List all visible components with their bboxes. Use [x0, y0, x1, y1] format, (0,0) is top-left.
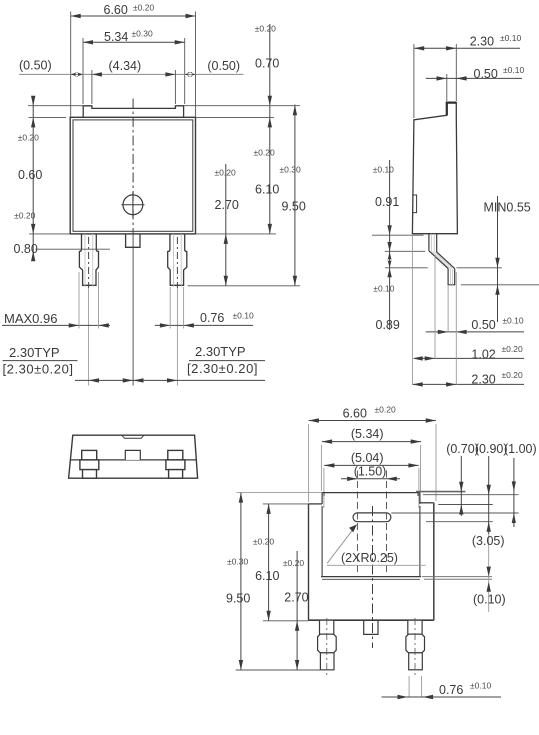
svg-text:0.80: 0.80 — [14, 242, 38, 256]
side view lead bend outer — [429, 251, 448, 269]
bottom view right lead — [408, 620, 422, 634]
9.50 dimension vertical line — [294, 105, 296, 286]
side view body outline — [412, 103, 457, 234]
front view right lead — [168, 234, 187, 285]
6.10 ext lines — [263, 503, 309, 505]
bottom view 9.50 dim vertical — [240, 493, 242, 670]
svg-text:±0.30: ±0.30 — [132, 29, 153, 39]
small view left lead shoulder block — [80, 460, 99, 470]
MAX0.96 ext lines — [78, 272, 80, 329]
(2XR0.25) leader line — [327, 525, 357, 564]
tab top ext line to right (0.70 reference) — [416, 491, 465, 493]
bottom view body right edge — [433, 503, 435, 620]
svg-text:1.02: 1.02 — [471, 348, 495, 362]
svg-text:9.50: 9.50 — [226, 592, 250, 606]
svg-text:0.50: 0.50 — [471, 318, 495, 332]
right lead center line extension — [176, 288, 178, 386]
svg-text:±0.10: ±0.10 — [373, 165, 394, 175]
svg-text:±0.10: ±0.10 — [470, 681, 491, 691]
left lead center line extension — [88, 288, 90, 386]
dim 0.89 ext lines — [372, 234, 424, 236]
dim 0.76 bottom line — [382, 696, 502, 698]
dim 1.02 line — [415, 357, 524, 359]
side view lead bend middle lines — [432, 251, 451, 268]
SMALL VIEW GROUP — [69, 435, 198, 478]
svg-text:±0.20: ±0.20 — [502, 370, 523, 380]
svg-text:5.34: 5.34 — [104, 30, 128, 44]
svg-text:0.89: 0.89 — [376, 318, 400, 332]
small view right lead top block — [168, 450, 183, 460]
front view left lead — [79, 234, 98, 285]
side view lead lower section — [448, 269, 455, 285]
tab top ext line to left (9.50 reference) — [237, 492, 323, 494]
bottom view 6.60 ext lines — [308, 424, 310, 502]
slot center ext line right ((1.00)/(0.90) reference) — [391, 512, 518, 514]
dim 0.50 top ext line — [446, 74, 448, 101]
svg-text:[2.30±0.20]: [2.30±0.20] — [187, 361, 258, 376]
dim 0.50 top line — [426, 77, 522, 79]
bottom view dim 6.60 line — [309, 420, 436, 422]
side view lead lower inner lines — [450, 269, 452, 285]
svg-text:±0.10: ±0.10 — [503, 65, 524, 75]
dim 2.30 bottom line — [412, 383, 524, 385]
bottom view slot (stadium) — [353, 513, 391, 522]
front view center line extension to bottom dims — [132, 234, 134, 386]
bottom view dim (5.04) line — [324, 464, 419, 466]
svg-text:6.60: 6.60 — [104, 3, 128, 17]
front view center line (dash-dot) — [132, 99, 134, 234]
target symbol cross horizontal — [121, 204, 144, 206]
lead tip ext line bottom left — [236, 669, 335, 671]
0.80 arrows — [31, 224, 35, 261]
bottom view dim (5.34) line — [322, 441, 421, 443]
svg-text:2.30TYP: 2.30TYP — [195, 344, 246, 359]
svg-text:±0.10: ±0.10 — [233, 311, 254, 321]
2.70 dimension vertical line — [225, 164, 227, 286]
svg-text:±0.20: ±0.20 — [502, 344, 523, 354]
bottom view body bottom edge — [309, 619, 434, 621]
svg-text:6.60: 6.60 — [343, 407, 367, 421]
(0.70) dim vertical — [460, 456, 462, 516]
small view right lead bottom block — [169, 470, 183, 479]
side view lead bend inner — [437, 252, 455, 269]
bottom view dim (1.50) line — [341, 478, 400, 480]
svg-text:2.70: 2.70 — [215, 198, 239, 212]
0.70 arrows — [268, 96, 272, 128]
bottom view (5.34) ext lines — [320, 445, 322, 491]
right 0.70/6.10 dimension vertical line — [269, 24, 271, 234]
bottom view tab side edges above body — [321, 493, 323, 504]
SIDE VIEW GROUP — [372, 33, 539, 387]
body top ext line right (0.90 reference) — [438, 504, 493, 506]
svg-text:9.50: 9.50 — [282, 200, 306, 214]
svg-text:(0.10): (0.10) — [473, 593, 506, 607]
svg-text:(4.34): (4.34) — [109, 59, 142, 73]
svg-text:0.91: 0.91 — [375, 195, 399, 209]
side view tab thick edges — [447, 103, 457, 116]
pad bottom ext lines right ((0.10)/(3.05) reference) — [422, 576, 492, 578]
svg-text:(0.50): (0.50) — [19, 59, 52, 73]
front view center stub lead — [126, 234, 140, 247]
dim 6.60 line — [71, 15, 196, 17]
side view gate bump on left edge — [412, 195, 416, 213]
bottom view center stub lead — [364, 620, 378, 634]
svg-text:(5.04): (5.04) — [351, 451, 384, 465]
front view body outline outer — [70, 117, 195, 234]
svg-text:(0.50): (0.50) — [207, 59, 240, 73]
svg-text:(5.34): (5.34) — [351, 427, 384, 441]
right horizontal ext lines — [184, 105, 300, 107]
dim 6.60 ext lines — [70, 12, 72, 117]
svg-text:(0.90): (0.90) — [475, 442, 508, 456]
svg-text:MIN0.55: MIN0.55 — [484, 201, 531, 215]
(0.50) left arrows — [71, 72, 83, 77]
svg-text:6.10: 6.10 — [255, 569, 279, 583]
tab top end hooks — [323, 493, 325, 496]
side view bottom ext verticals — [411, 236, 413, 384]
svg-text:[2.30±0.20]: [2.30±0.20] — [3, 362, 74, 377]
svg-text:±0.20: ±0.20 — [14, 210, 35, 220]
svg-text:±0.20: ±0.20 — [255, 24, 276, 34]
dim 2.30 top line — [414, 47, 520, 49]
left horizontal ext lines — [28, 105, 83, 107]
lead tip ext line — [461, 284, 539, 286]
bottom view tab top edge — [322, 492, 420, 494]
dim 0.91 vertical line — [389, 160, 391, 225]
(0.50) right arrows — [185, 72, 196, 77]
dim 5.34 ext lines — [82, 38, 84, 104]
svg-text:0.76: 0.76 — [439, 683, 463, 697]
svg-text:MAX0.96: MAX0.96 — [4, 311, 57, 326]
svg-text:±0.20: ±0.20 — [18, 133, 39, 143]
bottom view pad bottom edge pair — [321, 576, 421, 578]
svg-text:±0.20: ±0.20 — [283, 558, 304, 568]
MIN0.55 ext line right of bend — [456, 267, 501, 269]
dim 0.76 bottom ext lines — [408, 676, 410, 697]
svg-text:2.30: 2.30 — [471, 373, 495, 387]
svg-text:2.30TYP: 2.30TYP — [9, 345, 60, 360]
svg-text:±0.30: ±0.30 — [280, 165, 301, 175]
svg-text:6.10: 6.10 — [255, 183, 279, 197]
0.60 arrows — [31, 96, 35, 128]
svg-text:±0.30: ±0.30 — [227, 557, 248, 567]
svg-text:2.70: 2.70 — [284, 591, 308, 605]
6.10 bottom arrow — [268, 224, 272, 234]
dim 0.50 bottom line — [426, 331, 524, 333]
dim (0.50)/(4.34) row line — [19, 73, 244, 75]
bottom view body left edge — [308, 504, 310, 620]
svg-text:±0.10: ±0.10 — [373, 284, 394, 294]
step ext line right ((0.90) lower reference) — [426, 521, 493, 523]
target symbol circle — [123, 195, 143, 215]
small view right lead shoulder block — [166, 460, 185, 470]
svg-text:(2XR0.25): (2XR0.25) — [341, 551, 398, 565]
BOTTOM VIEW GROUP — [226, 405, 537, 700]
svg-text:±0.20: ±0.20 — [254, 148, 275, 158]
side view lead upper section — [428, 234, 430, 251]
(4.34) arrows — [92, 72, 175, 76]
bottom view center line (dash-dot) — [372, 506, 374, 648]
svg-text:0.50: 0.50 — [474, 67, 498, 81]
target symbol cross vertical — [132, 192, 134, 218]
svg-text:±0.20: ±0.20 — [133, 3, 154, 13]
2.30TYP bottom dim line — [75, 379, 265, 381]
0.76 ext lines — [169, 287, 171, 329]
svg-text:0.60: 0.60 — [18, 168, 42, 182]
svg-text:(3.05): (3.05) — [472, 534, 505, 548]
dim 2.30 top ext lines — [413, 44, 415, 118]
small view ledge line — [70, 459, 197, 461]
small view left lead bottom block — [83, 470, 97, 479]
(2XR0.25) underline — [327, 564, 426, 566]
svg-text:2.30: 2.30 — [470, 35, 494, 49]
MIN0.55 vertical line — [497, 196, 499, 322]
small view body outline — [69, 435, 198, 478]
svg-text:0.76: 0.76 — [200, 311, 224, 325]
dim 0.89 vertical line — [389, 225, 391, 330]
bottom view left lead — [320, 620, 334, 634]
(4.34) ext lines — [91, 70, 93, 104]
bottom view 6.10 dim vertical — [268, 504, 270, 621]
svg-text:±0.20: ±0.20 — [253, 537, 274, 547]
bottom view exposed pad side edges — [321, 506, 323, 577]
small view center stub — [125, 450, 140, 460]
svg-text:±0.20: ±0.20 — [215, 168, 236, 178]
(3.05) dim vertical and arrows — [488, 534, 490, 612]
bottom view (5.04) ext lines — [323, 468, 325, 508]
(1.00) dim vertical — [513, 458, 515, 527]
small view top notch — [122, 435, 144, 438]
bottom view (1.50) ext lines — [356, 471, 358, 575]
svg-text:(1.00): (1.00) — [504, 442, 537, 456]
FRONT VIEW GROUP — [2, 3, 306, 386]
(0.90) dim vertical — [488, 456, 490, 534]
right lead center line — [176, 237, 178, 288]
dim 5.34 line — [83, 41, 185, 43]
svg-text:±0.10: ±0.10 — [502, 316, 523, 326]
small view left lead top block — [82, 450, 97, 460]
bottom view lead center lines — [326, 618, 328, 675]
bottom view body top edges — [309, 503, 323, 505]
svg-text:(1.50): (1.50) — [354, 465, 387, 479]
front view body outline inner — [73, 120, 193, 231]
bottom view 2.70 dim vertical — [296, 551, 298, 670]
front view tab outline — [83, 106, 183, 118]
svg-text:±0.20: ±0.20 — [375, 405, 396, 415]
side view lead upper inner lines — [431, 234, 433, 252]
left lead center line — [88, 237, 90, 288]
svg-text:0.70: 0.70 — [255, 56, 279, 70]
svg-text:±0.10: ±0.10 — [500, 33, 521, 43]
left 0.60/0.80 dimension vertical line — [32, 96, 34, 258]
